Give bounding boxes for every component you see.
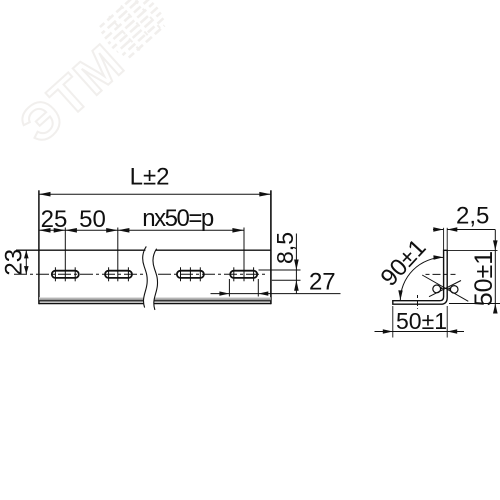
svg-text:50±1: 50±1 [470, 251, 498, 306]
arrow nx50 left [118, 228, 130, 233]
slot 2 arc-center ticks [108, 267, 110, 281]
rail bottom flange edge left [39, 303, 144, 305]
rail left edge + L dimension extension line [38, 190, 40, 304]
slot 3 arc-center ticks [180, 267, 182, 281]
arrow bottom 50±1 right [447, 329, 457, 333]
section vertical centerline (dash-dot) [417, 295, 419, 309]
arrow 23 bottom [24, 266, 29, 274]
svg-text:nx50=p: nx50=p [142, 205, 214, 232]
svg-text:L±2: L±2 [130, 164, 170, 191]
arrow 25 left [39, 228, 51, 233]
dimension 8,5 extension bottom [272, 279, 301, 281]
dimension 8,5 extension top [259, 269, 301, 271]
dimension 8,5 line [295, 234, 297, 294]
arrow 50 left [65, 228, 77, 233]
break line right S-curve [153, 249, 158, 310]
corner circle left [433, 285, 441, 293]
slot 4 arc-center ticks [233, 267, 235, 281]
rail bottom fold line left [39, 300, 144, 302]
rail top edge left segment + 23-dim extension [16, 249, 145, 251]
slot 1 [52, 271, 79, 278]
slot 3 [177, 271, 204, 278]
extension line slot4 center [243, 228, 245, 282]
svg-text:50±1: 50±1 [396, 308, 447, 334]
svg-text:50: 50 [79, 206, 106, 233]
arrow 27 right [258, 291, 268, 295]
arrow 90±1 top [433, 255, 443, 259]
corner diagonal 1 [422, 275, 468, 301]
corner wedge left [440, 287, 443, 290]
rail bottom fold line right [154, 300, 271, 302]
arrow 8,5 bottom [294, 280, 299, 291]
2,5 dimension line [433, 229, 443, 231]
svg-text:23: 23 [1, 249, 28, 276]
right 50±1 extension top [445, 249, 498, 251]
dimension 27 extension right [257, 279, 259, 297]
2,5 extension lines [443, 228, 445, 250]
dimension 23 line [25, 250, 27, 274]
angle profile outline [393, 250, 447, 304]
corner wedge right [447, 287, 450, 290]
arrow 50 right [106, 228, 118, 233]
section horizontal centerline (dash-dot) [426, 273, 456, 275]
dimension row2 chain line [39, 229, 244, 231]
rail right edge + L dimension extension line [270, 190, 272, 304]
arrow 2,5 right [447, 227, 457, 231]
arrow bottom 50±1 left [383, 329, 393, 333]
extension line slot2 center [117, 228, 119, 282]
extension line slot1 center [64, 228, 66, 282]
arrow 8,5 top [294, 260, 299, 271]
arrow 90±1 bottom [398, 290, 402, 300]
dimension L±2 line [39, 193, 271, 195]
rail bottom shading band left [39, 297, 144, 300]
corner diagonal 2 [429, 281, 461, 297]
arrow right 50±1 top [493, 240, 498, 250]
right 50±1 extension bottom [449, 303, 500, 305]
bottom 50±1 extension right [446, 306, 448, 338]
slot 4 [230, 271, 257, 278]
svg-text:2,5: 2,5 [456, 203, 489, 230]
dimension 27 extension left [228, 279, 230, 297]
rail bottom flange edge right [154, 303, 271, 305]
break line left S-curve [143, 246, 148, 307]
arrowheads section view [383, 227, 498, 333]
arrowheads front view [24, 192, 299, 296]
svg-text:8,5: 8,5 [272, 232, 298, 264]
corner circle right [450, 286, 458, 294]
svg-text:25: 25 [41, 206, 68, 233]
slot centerline (dash-dot) [14, 273, 143, 275]
arrow L±2 left [39, 192, 51, 197]
watermark ЭТМ text [9, 33, 136, 155]
bottom 50±1 extension left [392, 306, 394, 338]
bottom 50±1 dimension line [375, 331, 465, 333]
arrow 2,5 left [433, 227, 443, 231]
slot 1 arc-center ticks [54, 267, 56, 281]
arrow 25 right [54, 228, 66, 233]
slot 3 center tick [189, 267, 191, 281]
arrow L±2 right [259, 192, 271, 197]
svg-text:27: 27 [309, 268, 336, 295]
arrow 27 left [219, 291, 229, 295]
arrow right 50±1 bottom [493, 304, 498, 314]
rail bottom shading band right [154, 297, 271, 300]
right 50±1 dimension line [494, 230, 496, 314]
slot 2 [105, 271, 132, 278]
arrow nx50 right [232, 228, 244, 233]
dimension 27 line [211, 293, 341, 295]
90±1 arc [400, 257, 443, 300]
rail top edge right segment [156, 249, 271, 251]
watermark logo hatched emblem [95, 0, 171, 63]
arrow 23 top [24, 250, 29, 258]
